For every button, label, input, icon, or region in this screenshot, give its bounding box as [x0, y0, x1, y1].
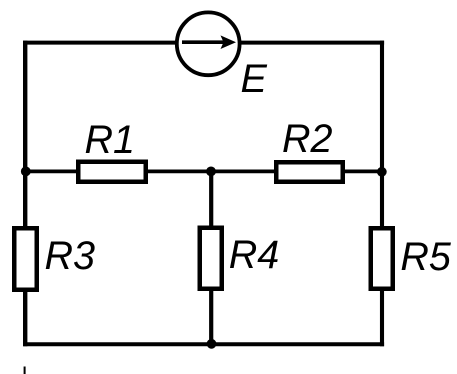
wire middle vertical lower: [209, 289, 213, 344]
wire right vertical upper: [380, 41, 384, 228]
svg-text:R1: R1: [85, 118, 136, 162]
svg-text:R3: R3: [45, 234, 96, 278]
bottom-left tick mark: [24, 367, 26, 374]
wire top-right segment: [240, 41, 384, 45]
wire middle horizontal center: [146, 169, 276, 173]
source E circle: [177, 12, 240, 75]
svg-text:R4: R4: [229, 233, 280, 277]
wire bottom horizontal: [23, 342, 384, 346]
wire left vertical lower: [23, 290, 27, 346]
svg-text:R5: R5: [400, 235, 452, 279]
resistor R5: [371, 228, 393, 289]
wire left vertical upper: [23, 41, 27, 228]
wire top-left segment: [23, 41, 176, 45]
junction node left: [21, 167, 31, 177]
junction node middle: [206, 167, 216, 177]
resistor R3: [14, 228, 37, 290]
source E arrow: [182, 35, 236, 49]
resistor R1: [78, 162, 146, 182]
resistor R2: [276, 162, 343, 182]
svg-text:R2: R2: [282, 117, 333, 161]
wire right vertical lower: [380, 290, 384, 346]
wire middle horizontal right: [343, 169, 382, 173]
wire middle horizontal left: [25, 169, 78, 173]
wire middle vertical upper: [209, 171, 213, 228]
junction node bottom: [207, 339, 217, 349]
junction node right: [377, 167, 387, 177]
svg-text:E: E: [241, 57, 268, 101]
resistor R4: [200, 228, 222, 289]
